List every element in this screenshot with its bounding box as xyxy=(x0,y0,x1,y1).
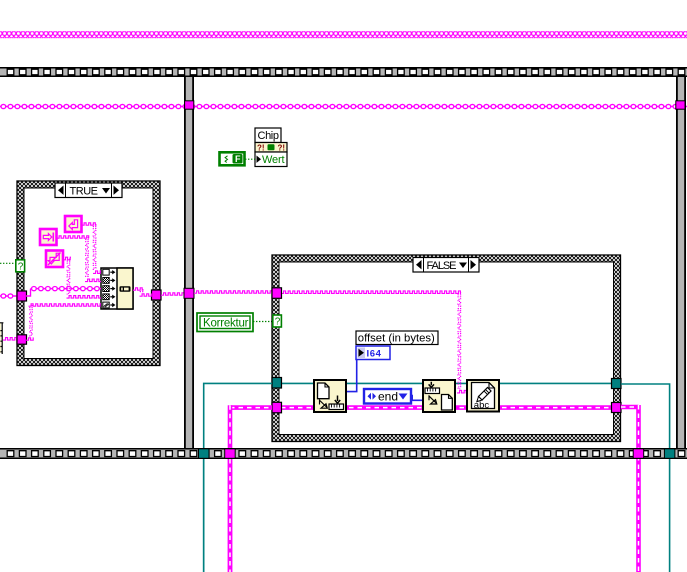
junction chain-wire divider2 xyxy=(676,101,685,109)
wire string-array dashed below band left xyxy=(228,459,233,572)
selector terminal ? FALSE xyxy=(273,315,282,328)
svg-text:F: F xyxy=(235,154,241,164)
wire enum blue to node2 xyxy=(410,396,423,401)
local variable Chip Wert element xyxy=(255,152,287,167)
wire string divider to FALSE tunnel xyxy=(194,291,272,293)
boolean constant F xyxy=(220,152,245,165)
label offset (in bytes) xyxy=(356,331,438,345)
svg-text:?!: ?! xyxy=(257,144,265,153)
selector terminal ? TRUE xyxy=(16,260,25,273)
svg-text:Korrektur: Korrektur xyxy=(203,317,249,329)
wire refnum teal across FALSE xyxy=(281,382,612,384)
wire chain-cluster tunnel1 to node xyxy=(26,289,31,296)
svg-text:abc: abc xyxy=(474,400,490,411)
wire string from tab constant xyxy=(57,236,90,238)
enum constant end xyxy=(364,389,411,404)
string constant end-of-line xyxy=(65,216,82,232)
terminal partial left-edge node xyxy=(0,323,3,355)
function concatenate-strings xyxy=(101,268,133,309)
local variable Chip icon bar xyxy=(255,143,287,153)
tunnel teal FALSE left xyxy=(272,378,282,389)
wire string TRUE-tunnel to divider xyxy=(161,293,184,295)
tunnel magenta FALSE right xyxy=(612,403,622,413)
frame outer-sequence top border xyxy=(0,67,687,77)
wire chain-cluster horizontal full-width xyxy=(0,106,687,108)
local variable Chip label xyxy=(255,128,281,143)
svg-text:end: end xyxy=(378,390,398,404)
string constant tab xyxy=(40,229,57,245)
wire string from crossed constant xyxy=(63,257,71,260)
wire string-array dashed left vertical xyxy=(230,405,272,410)
wire boolean dotted to selector xyxy=(0,262,16,264)
svg-text:?: ? xyxy=(18,262,24,273)
string constant crossed xyxy=(46,251,63,268)
svg-text:I64: I64 xyxy=(367,348,382,359)
case structure TRUE selector label xyxy=(55,183,122,198)
wire refnum teal right vertical xyxy=(621,384,670,572)
case structure FALSE selector label xyxy=(413,258,479,273)
numeric constant I64 xyxy=(356,346,390,360)
wire refnum teal left vertical xyxy=(204,383,272,572)
junction chain-wire divider1 xyxy=(185,101,194,109)
wire string wavy into tunnel2 xyxy=(3,338,17,341)
svg-text:FALSE: FALSE xyxy=(427,260,457,272)
junction string-wire divider1 xyxy=(184,288,194,298)
frame divider bar left xyxy=(184,77,194,448)
wire string-array dashed across FALSE xyxy=(281,405,612,410)
tunnel magenta FALSE left bottom xyxy=(272,402,282,413)
tunnel magenta bottom-left xyxy=(225,449,236,459)
wire boolean dotted F-to-Wert xyxy=(245,158,255,160)
local variable Korrektur xyxy=(197,313,253,332)
wire braided-cluster top xyxy=(0,31,687,38)
svg-text:offset (in bytes): offset (in bytes) xyxy=(358,333,435,345)
svg-text:Chip: Chip xyxy=(258,130,280,142)
wire string-array dashed right vertical xyxy=(621,405,639,410)
svg-text:?!: ?! xyxy=(278,144,286,153)
svg-text:?: ? xyxy=(275,317,281,328)
wire I64 blue to node1 xyxy=(346,353,357,392)
tunnel magenta bottom-right xyxy=(633,449,644,459)
function write-text-file xyxy=(467,380,499,412)
wire string tunnel2 to node xyxy=(30,305,32,337)
svg-text:TRUE: TRUE xyxy=(70,185,99,197)
frame divider bar right xyxy=(676,77,686,448)
function get-file-position xyxy=(314,380,346,412)
svg-text:Wert: Wert xyxy=(262,154,285,166)
wire boolean dotted Korrektur to FALSE selector xyxy=(253,321,273,323)
case structure FALSE border xyxy=(272,255,621,442)
tunnel magenta FALSE left top xyxy=(272,288,282,299)
wire string from EOL constant xyxy=(82,223,97,225)
wire string wavy FALSE tunnel to write-node xyxy=(281,291,461,294)
frame outer-sequence bottom border xyxy=(0,448,687,459)
tunnel magenta TRUE left 2 xyxy=(17,335,27,344)
tunnel magenta TRUE left 1 xyxy=(17,291,27,301)
tunnel teal FALSE right xyxy=(612,379,622,389)
tunnel magenta TRUE right xyxy=(152,290,162,300)
function set-file-position xyxy=(423,380,455,412)
case structure TRUE border xyxy=(17,181,160,366)
tunnel teal bottom-right xyxy=(664,449,675,459)
wire refnum teal below band left xyxy=(203,459,205,572)
wire string node output to right tunnel xyxy=(133,288,144,290)
tunnel teal bottom-left xyxy=(199,449,210,459)
wire chain-cluster left into tunnel1 xyxy=(0,295,17,297)
